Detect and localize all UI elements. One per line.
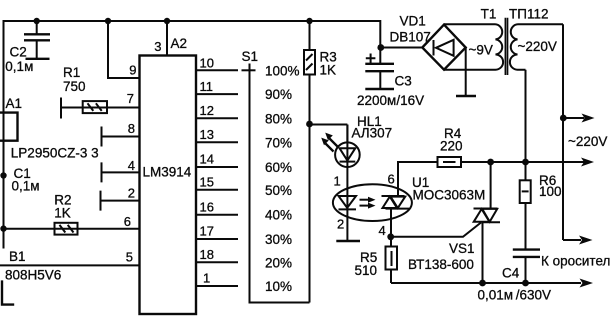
- svg-text:80%: 80%: [265, 111, 292, 126]
- svg-text:~9V: ~9V: [469, 42, 493, 57]
- wire VS1 gate: [391, 223, 481, 237]
- wire bottom rail with arrow: [391, 282, 581, 284]
- svg-text:50%: 50%: [265, 183, 292, 198]
- svg-text:A2: A2: [171, 36, 188, 51]
- svg-text:2200м/16V: 2200м/16V: [357, 93, 424, 108]
- svg-text:К ороситель: К ороситель: [541, 254, 610, 269]
- svg-text:90%: 90%: [265, 87, 292, 102]
- svg-text:10%: 10%: [265, 279, 292, 294]
- svg-text:C2: C2: [10, 45, 27, 60]
- svg-text:S1: S1: [242, 49, 259, 64]
- triac VS1 BT138-600: [408, 162, 500, 283]
- svg-text:АЛ307: АЛ307: [352, 126, 393, 141]
- svg-text:10: 10: [200, 55, 214, 70]
- svg-text:C3: C3: [395, 74, 412, 89]
- svg-text:ТП112: ТП112: [509, 7, 548, 22]
- node C3 / bridge junction: [377, 44, 384, 51]
- svg-text:T1: T1: [481, 7, 497, 22]
- ground under C3: [365, 88, 394, 90]
- svg-text:VD1: VD1: [400, 14, 426, 29]
- resistor R5: [355, 237, 398, 283]
- node R6 top junction: [522, 159, 529, 166]
- capacitor C4: [478, 250, 552, 303]
- svg-text:2: 2: [128, 186, 135, 201]
- pin 11 stub: [196, 93, 238, 95]
- svg-text:LM3914: LM3914: [143, 165, 192, 180]
- svg-text:4: 4: [128, 158, 135, 173]
- svg-text:LP2950CZ-3 3: LP2950CZ-3 3: [11, 146, 99, 161]
- wire triac output line with arrow: [461, 161, 585, 163]
- wire opto pin 4 down: [390, 209, 392, 237]
- ground under bridge: [456, 95, 476, 97]
- svg-text:A1: A1: [6, 96, 23, 111]
- pin 17 stub: [196, 238, 238, 240]
- pin 8 stub with end bar: [102, 127, 140, 147]
- svg-text:17: 17: [200, 224, 214, 239]
- module A1 box (cut at left edge): [0, 113, 18, 141]
- svg-text:510: 510: [355, 263, 378, 278]
- wire junction to bridge: [381, 47, 423, 49]
- node pin9 tap on rail: [105, 18, 111, 24]
- wire right 220V bus: [562, 24, 564, 240]
- resistor R3: [304, 21, 337, 124]
- resistor R6: [520, 162, 562, 249]
- capacitor C3 (polar): [357, 48, 424, 109]
- node C2 tap on rail: [34, 18, 40, 24]
- svg-text:MOC3063M: MOC3063M: [413, 188, 486, 203]
- pin 18 stub: [196, 261, 238, 263]
- svg-text:6: 6: [388, 172, 395, 187]
- svg-text:6: 6: [124, 214, 131, 229]
- ground under C2: [26, 58, 50, 60]
- svg-text:0,1м: 0,1м: [12, 179, 40, 194]
- svg-text:12: 12: [200, 103, 214, 118]
- pin 1 stub: [196, 285, 238, 287]
- LED HL1: [321, 114, 392, 241]
- svg-text:1: 1: [203, 271, 210, 286]
- svg-text:14: 14: [200, 152, 214, 167]
- arrow 220V output top: [563, 117, 584, 119]
- svg-text:18: 18: [200, 247, 214, 262]
- svg-text:1K: 1K: [54, 205, 71, 220]
- pin 4 stub with end bar: [102, 162, 140, 182]
- svg-text:4: 4: [379, 223, 386, 238]
- svg-text:30%: 30%: [265, 232, 292, 247]
- pin 10 stub: [196, 69, 238, 71]
- wire rail to pin 3: [166, 21, 168, 56]
- bridge rectifier VD1 DB107: [390, 14, 466, 70]
- wire node to HL1: [310, 124, 348, 126]
- pin 16 stub: [196, 214, 238, 216]
- wire rail corner down to junction: [379, 20, 381, 48]
- svg-text:R1: R1: [63, 65, 80, 80]
- node R3 tap on rail: [306, 18, 312, 24]
- node 220V output tap: [560, 115, 567, 122]
- svg-text:VS1: VS1: [449, 241, 475, 256]
- svg-text:15: 15: [200, 175, 214, 190]
- svg-text:16: 16: [200, 199, 214, 214]
- svg-text:~220V: ~220V: [568, 134, 607, 149]
- node VS1 bottom junction: [479, 280, 486, 287]
- wire bridge top to T1 secondary: [444, 23, 496, 25]
- node pin3 tap on rail: [164, 18, 170, 24]
- svg-text:220: 220: [440, 139, 463, 154]
- node C1 tap: [0, 172, 6, 178]
- svg-text:750: 750: [63, 79, 86, 94]
- svg-text:1K: 1K: [320, 63, 337, 78]
- svg-text:13: 13: [200, 127, 214, 142]
- svg-text:B1: B1: [9, 249, 26, 264]
- wire T1 primary bottom down to triac line: [518, 70, 526, 162]
- wire bridge bottom to T1 secondary: [444, 69, 496, 71]
- svg-text:20%: 20%: [265, 255, 292, 270]
- pin 12 stub: [196, 117, 238, 119]
- svg-text:C4: C4: [502, 266, 520, 281]
- svg-text:7: 7: [127, 91, 134, 106]
- node pin4 / R5 / gate junction: [387, 233, 394, 240]
- wire rail to pin 9: [107, 21, 140, 78]
- wire left vertical bus: [3, 20, 5, 249]
- svg-text:70%: 70%: [265, 135, 292, 150]
- wire bridge right corner to ground: [465, 48, 467, 96]
- pin 14 stub: [196, 166, 238, 168]
- switch S1 wiper contact at 100%: [242, 69, 256, 71]
- svg-text:5: 5: [126, 249, 133, 264]
- svg-text:100: 100: [539, 184, 562, 199]
- node R3 / HL1 junction: [306, 121, 313, 128]
- resistor R4: [398, 126, 463, 167]
- sensor B1 box (cut at left edge): [2, 280, 14, 304]
- svg-text:ВТ138-600: ВТ138-600: [408, 257, 474, 272]
- svg-text:0,1м: 0,1м: [5, 59, 33, 74]
- capacitor C2: [5, 21, 50, 74]
- resistor R2: [0, 192, 139, 234]
- svg-text:60%: 60%: [265, 160, 292, 175]
- svg-text:0,01м /630V: 0,01м /630V: [478, 288, 552, 303]
- resistor R1: [61, 65, 140, 119]
- svg-text:9: 9: [129, 63, 136, 78]
- svg-text:11: 11: [200, 79, 214, 94]
- pin 2 stub with end bar: [101, 191, 140, 211]
- pin 13 stub: [196, 141, 238, 143]
- transformer T1 TP112: [469, 7, 557, 76]
- switch S1 bottom return wire: [249, 302, 310, 304]
- wire opto pin 6 up to R4 line: [397, 161, 399, 196]
- svg-text:DB107: DB107: [390, 30, 431, 45]
- wire T1 primary top to right bus: [518, 23, 564, 25]
- node VS1 top junction: [487, 159, 494, 166]
- arrow 220V output bottom: [563, 239, 581, 241]
- svg-text:8: 8: [128, 121, 135, 136]
- op-amp U A2 LM3914 box: [140, 56, 197, 315]
- optocoupler U1 MOC3063M: [333, 175, 485, 221]
- switch S1 common bar: [249, 64, 251, 303]
- svg-text:100%: 100%: [265, 64, 300, 79]
- wire top +9V rail: [3, 20, 381, 22]
- pin 15 stub: [196, 189, 238, 191]
- wire S1 return up to R3/HL1 node: [309, 124, 311, 303]
- sensor B1 wire to pin 5: [0, 264, 140, 266]
- svg-text:40%: 40%: [265, 208, 292, 223]
- svg-text:2: 2: [337, 217, 344, 232]
- node C4 bottom junction: [522, 280, 529, 287]
- svg-text:3: 3: [154, 39, 161, 54]
- ground under opto pin 2: [336, 240, 360, 242]
- svg-text:~220V: ~220V: [518, 39, 557, 54]
- svg-text:808H5V6: 808H5V6: [5, 268, 61, 283]
- svg-text:1: 1: [334, 174, 341, 189]
